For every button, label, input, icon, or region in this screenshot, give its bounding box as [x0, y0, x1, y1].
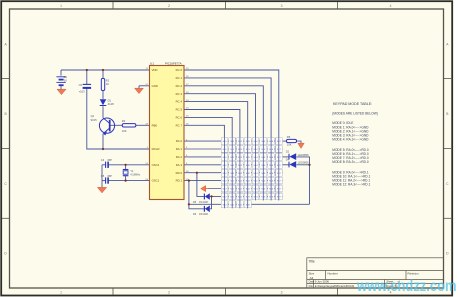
svg-text:RC.7: RC.7	[176, 123, 183, 127]
resistor R1	[101, 79, 104, 91]
svg-text:Number: Number	[328, 271, 338, 275]
power arrow (R5 pull-up)	[298, 143, 304, 148]
wire column 2	[239, 137, 241, 208]
svg-text:R2: R2	[122, 119, 126, 123]
svg-text:RA.3: RA.3	[176, 163, 183, 167]
wire C4 left lead	[102, 164, 105, 166]
svg-text:Y1: Y1	[130, 169, 134, 173]
svg-text:C4: C4	[101, 158, 105, 162]
svg-text:10K: 10K	[287, 143, 292, 147]
junction	[125, 164, 127, 166]
wire column 4	[255, 137, 257, 200]
svg-text:LED0805: LED0805	[298, 153, 309, 157]
capacitor C5	[106, 177, 109, 183]
svg-text:(MODES ARE LISTED BELOW): (MODES ARE LISTED BELOW)	[332, 112, 378, 116]
wire row3 to LED D2	[283, 156, 289, 158]
ground (oscillator caps)	[97, 187, 106, 193]
wire RC5 to keypad column 2	[184, 110, 240, 138]
svg-text:RC.4: RC.4	[176, 100, 183, 104]
wire row4 to LED D4	[283, 164, 289, 166]
junction	[308, 164, 310, 166]
wire column 7	[278, 137, 280, 200]
svg-text:4.19MHz: 4.19MHz	[130, 174, 141, 177]
node annotation text block	[332, 102, 378, 186]
svg-text:VDD: VDD	[152, 68, 158, 72]
wire C5 to OSC1	[108, 180, 149, 182]
svg-text:4: 4	[390, 4, 392, 8]
svg-text:MCLR: MCLR	[152, 147, 160, 151]
svg-text:B1: B1	[64, 75, 68, 79]
svg-text:RA.2: RA.2	[176, 155, 183, 159]
svg-text:MODE 8: RA.3<---->RD.0: MODE 8: RA.3<---->RD.0	[332, 160, 369, 164]
wire row 7	[208, 188, 283, 190]
op-amp U1 PIC16F877A MCU	[145, 62, 189, 200]
wire D1 to Q1 collector	[102, 106, 104, 118]
battery B1	[56, 77, 65, 85]
svg-text:C5: C5	[101, 174, 105, 178]
wire column 3	[247, 137, 249, 208]
wire RC3 to keypad column 4	[184, 94, 256, 138]
svg-text:PIC16F877A: PIC16F877A	[165, 62, 182, 66]
svg-text:RC.0: RC.0	[176, 68, 183, 72]
svg-text:RD.1: RD.1	[176, 179, 183, 183]
junction	[188, 203, 190, 205]
svg-text:R1: R1	[106, 78, 110, 82]
svg-text:R5: R5	[287, 135, 291, 139]
svg-text:RA.0: RA.0	[176, 139, 183, 143]
diode D5 1N4148	[204, 193, 209, 200]
svg-text:LED0805: LED0805	[298, 161, 309, 165]
wire column 6	[270, 137, 272, 200]
ground (IC GND pin)	[135, 88, 144, 93]
svg-text:10K: 10K	[122, 129, 127, 133]
svg-text:RC.3: RC.3	[176, 92, 183, 96]
svg-text:9015: 9015	[91, 118, 97, 122]
junction	[188, 180, 190, 182]
svg-text:C6: C6	[79, 83, 83, 87]
svg-text:3: 3	[281, 4, 283, 8]
wire RC6 to keypad column 1	[184, 117, 232, 137]
wire C6 top lead	[86, 70, 88, 84]
capacitor C4	[106, 162, 109, 168]
svg-text:Date: Date	[309, 280, 315, 284]
wire row 5	[184, 172, 283, 174]
wire RD1 branch down	[189, 181, 204, 209]
svg-text:Q1: Q1	[91, 114, 95, 118]
LED D4	[289, 161, 296, 168]
wire battery top lead	[60, 70, 62, 76]
wire R1 top lead	[102, 70, 104, 79]
svg-text:File: File	[309, 284, 314, 288]
capacitor C6	[83, 84, 92, 88]
wire RC0 to keypad column 7	[184, 70, 279, 137]
svg-text:D1: D1	[108, 98, 112, 102]
svg-text:15P: 15P	[107, 174, 112, 178]
svg-text:1: 1	[60, 4, 62, 8]
svg-text:E:\Design\keypad68\matrix68.Dd: E:\Design\keypad68\matrix68.Ddb	[315, 284, 355, 288]
svg-text:GND: GND	[152, 84, 158, 88]
wire LED D2 to bottom net	[297, 157, 310, 204]
wire row1 to R5	[283, 140, 287, 142]
wire C5 left lead	[102, 180, 105, 182]
wire C6 to MCLR	[87, 89, 150, 149]
wire C4 to OSC2	[108, 164, 149, 166]
wire RC2 to keypad column 5	[184, 86, 263, 137]
svg-text:Size: Size	[309, 271, 315, 275]
wire R5 to power	[297, 141, 302, 143]
wire RC1 to keypad column 6	[184, 78, 271, 137]
svg-text:RB0: RB0	[152, 123, 158, 127]
wire crystal bottom lead	[125, 176, 127, 181]
svg-text:1N4148: 1N4148	[199, 213, 208, 216]
wire row 6	[184, 180, 283, 182]
title block	[307, 258, 444, 288]
keypad matrix 8x8 plus extra row, switches S00-S83	[222, 141, 281, 206]
transistor Q1 9015	[99, 118, 114, 136]
wire row 3	[184, 156, 283, 158]
svg-text:RC.5: RC.5	[176, 108, 183, 112]
wire Q1 base to R2	[110, 124, 122, 126]
wire caps ground rail	[101, 165, 103, 187]
svg-text:3: 3	[281, 291, 283, 295]
svg-text:Title: Title	[309, 259, 315, 263]
svg-text:3V: 3V	[64, 78, 67, 82]
resistor R2	[122, 124, 136, 127]
svg-text:1: 1	[60, 291, 62, 295]
svg-text:Revision: Revision	[408, 271, 419, 275]
svg-text:2: 2	[168, 4, 170, 8]
wire column 5	[262, 137, 264, 200]
svg-text:www.cndzz.com: www.cndzz.com	[356, 278, 456, 295]
wire column 0	[223, 137, 225, 208]
wire D6 up to row 8	[210, 196, 212, 208]
svg-text:OSC2: OSC2	[152, 163, 160, 167]
svg-text:+103: +103	[79, 90, 86, 94]
svg-text:MODE 12: RA.3<---->RD.1: MODE 12: RA.3<---->RD.1	[332, 183, 370, 187]
wire LED D4 join	[297, 164, 310, 166]
svg-text:D2: D2	[286, 150, 290, 154]
wire battery to ground	[60, 85, 62, 89]
svg-text:9-Jun-2006: 9-Jun-2006	[315, 280, 330, 284]
svg-text:15P: 15P	[107, 158, 112, 162]
wire GND stub	[139, 85, 150, 87]
svg-text:U1: U1	[150, 62, 154, 66]
wire Q1 emitter down	[102, 134, 104, 149]
resistor R5	[287, 139, 297, 142]
junction	[86, 69, 88, 71]
diode D6 1N4148	[204, 206, 209, 213]
svg-text:RC.2: RC.2	[176, 84, 183, 88]
power arrow (row 7)	[201, 186, 206, 192]
LED D2	[289, 153, 296, 160]
svg-text:4148: 4148	[108, 102, 114, 106]
svg-text:D4: D4	[286, 158, 290, 162]
svg-text:OSC1: OSC1	[152, 179, 160, 183]
diode D1	[100, 99, 107, 105]
svg-text:RD.0: RD.0	[176, 171, 183, 175]
wire row 2	[184, 148, 283, 150]
svg-text:A4: A4	[310, 276, 314, 280]
svg-text:2: 2	[168, 291, 170, 295]
svg-text:RC.1: RC.1	[176, 76, 183, 80]
wire row 1	[184, 140, 283, 142]
wire RC7 to keypad column 0	[184, 125, 224, 137]
crystal Y1	[123, 170, 129, 176]
junction	[196, 172, 198, 174]
wire R2 to RB0	[136, 124, 150, 126]
ground (battery)	[57, 89, 66, 94]
junction	[102, 69, 104, 71]
wire RC4 to keypad column 3	[184, 102, 248, 138]
wire GND drop	[138, 86, 140, 88]
svg-text:RC.6: RC.6	[176, 116, 183, 120]
junction	[125, 180, 127, 182]
wire row 4	[184, 164, 283, 166]
wire RD0 branch down	[197, 173, 204, 197]
svg-text:1K: 1K	[106, 82, 109, 86]
wire row 8	[210, 195, 283, 197]
wire column 1	[231, 137, 233, 208]
wire VDD rail	[61, 69, 150, 71]
wire crystal top lead	[125, 165, 127, 170]
svg-text:1N4148: 1N4148	[199, 201, 208, 204]
svg-text:KEYPAD MODE TABLE:: KEYPAD MODE TABLE:	[333, 102, 372, 106]
svg-text:MODE 4: RA.3<---->GND: MODE 4: RA.3<---->GND	[332, 137, 369, 141]
junction	[210, 195, 212, 197]
junction	[102, 148, 104, 150]
wire R1 to D1	[102, 91, 104, 99]
wire bottom row	[189, 203, 310, 205]
svg-text:RA.1: RA.1	[176, 147, 183, 151]
